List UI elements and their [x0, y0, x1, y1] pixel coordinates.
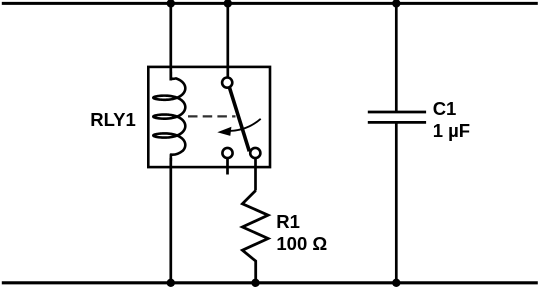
svg-text:R1: R1: [276, 211, 300, 232]
svg-text:RLY1: RLY1: [90, 109, 136, 130]
svg-text:100 Ω: 100 Ω: [276, 233, 327, 254]
svg-text:1 µF: 1 µF: [433, 120, 470, 141]
svg-text:C1: C1: [433, 98, 457, 119]
